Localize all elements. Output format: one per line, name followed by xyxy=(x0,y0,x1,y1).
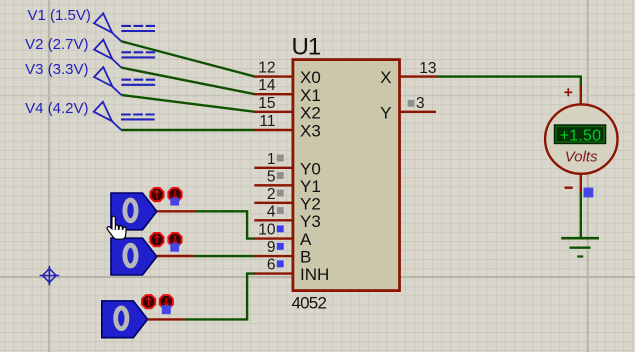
generator V3 symbol xyxy=(94,67,155,95)
pin state square pin9 (low) xyxy=(277,243,284,250)
pin state square pin10 (low) xyxy=(277,225,284,232)
logic state LS3 pentagon xyxy=(102,301,148,338)
svg-text:V4 (4.2V): V4 (4.2V) xyxy=(25,100,88,117)
pin state square pin6 (low) xyxy=(277,260,284,267)
pin state square pin3 (floating) xyxy=(408,100,415,107)
svg-text:13: 13 xyxy=(419,60,436,77)
svg-text:6: 6 xyxy=(267,257,276,274)
LS1 pin stub xyxy=(157,210,195,212)
svg-text:2: 2 xyxy=(267,186,276,203)
pin state square pin1 (floating) xyxy=(277,155,284,162)
svg-text:Y3: Y3 xyxy=(300,212,321,231)
svg-text:Y1: Y1 xyxy=(300,177,321,196)
svg-text:4: 4 xyxy=(267,203,276,220)
voltmeter plus mark xyxy=(564,88,572,96)
LS1 up button xyxy=(150,188,163,201)
svg-text:+1.50: +1.50 xyxy=(560,128,601,145)
wire voltmeter to ground xyxy=(580,192,582,238)
svg-text:Volts: Volts xyxy=(565,149,598,166)
voltmeter pin stub top xyxy=(580,86,582,106)
svg-text:4052: 4052 xyxy=(292,294,327,313)
svg-text:X1: X1 xyxy=(300,86,321,105)
svg-text:5: 5 xyxy=(267,168,276,185)
svg-text:B: B xyxy=(300,248,311,267)
wire LS1 to A xyxy=(195,211,255,238)
voltmeter pin stub bottom xyxy=(580,174,582,193)
LS1 probe square xyxy=(170,198,179,206)
voltmeter LCD display xyxy=(554,125,606,145)
LS2 up button xyxy=(150,233,163,246)
LS1 down button xyxy=(168,188,181,201)
svg-text:X3: X3 xyxy=(300,122,321,141)
svg-text:10: 10 xyxy=(258,222,276,239)
pin state square pin2 (floating) xyxy=(277,190,284,197)
voltmeter minus mark xyxy=(565,186,573,188)
LS2 probe square xyxy=(170,243,179,252)
ground symbol xyxy=(561,238,599,256)
svg-text:INH: INH xyxy=(300,265,329,284)
LS3 probe square xyxy=(162,305,171,314)
svg-text:14: 14 xyxy=(258,77,276,94)
wire pin13 to voltmeter xyxy=(437,77,581,86)
svg-text:11: 11 xyxy=(259,113,275,130)
LS3 up button xyxy=(142,295,155,308)
svg-text:15: 15 xyxy=(258,95,275,112)
wire V3 to X2 xyxy=(121,95,255,112)
svg-text:1: 1 xyxy=(267,151,276,168)
svg-text:3: 3 xyxy=(416,95,425,112)
U1 body (4052) xyxy=(293,60,400,291)
U1 right pin stubs xyxy=(400,77,437,112)
svg-text:9: 9 xyxy=(267,239,276,256)
svg-text:Y2: Y2 xyxy=(300,194,321,213)
voltmeter probe square xyxy=(584,188,594,198)
generator V2 symbol xyxy=(94,40,155,68)
svg-text:X0: X0 xyxy=(300,68,321,87)
LS2 down button xyxy=(168,233,181,246)
wire V1 to X0 xyxy=(121,41,255,76)
svg-text:V2 (2.7V): V2 (2.7V) xyxy=(25,36,88,53)
LS2 pin stub xyxy=(157,255,194,257)
svg-text:X: X xyxy=(380,68,391,87)
pin state square pin4 (floating) xyxy=(277,207,284,214)
wire V4 to X3 xyxy=(121,129,255,131)
svg-text:A: A xyxy=(300,230,312,249)
voltmeter body xyxy=(545,104,617,173)
svg-text:U1: U1 xyxy=(292,33,321,60)
LS3 pin stub xyxy=(148,318,185,320)
svg-text:Y0: Y0 xyxy=(300,159,321,178)
pin state square pin5 (floating) xyxy=(277,172,284,179)
mouse cursor hand xyxy=(107,216,126,239)
svg-text:V1 (1.5V): V1 (1.5V) xyxy=(28,7,91,24)
U1 left pin stubs xyxy=(254,77,292,274)
svg-text:V3 (3.3V): V3 (3.3V) xyxy=(25,61,88,78)
wire V2 to X1 xyxy=(121,68,255,95)
generator V1 symbol xyxy=(94,13,155,41)
svg-text:X2: X2 xyxy=(300,103,321,122)
generator V4 symbol xyxy=(94,102,155,130)
wire LS3 to INH xyxy=(185,274,256,320)
LS3 down button xyxy=(160,295,173,308)
origin marker xyxy=(40,266,60,285)
svg-text:Y: Y xyxy=(380,103,391,122)
logic state LS2 pentagon xyxy=(111,238,157,275)
svg-text:12: 12 xyxy=(258,60,275,77)
wire LS2 to B xyxy=(193,255,255,257)
logic state LS1 pentagon xyxy=(111,193,157,230)
